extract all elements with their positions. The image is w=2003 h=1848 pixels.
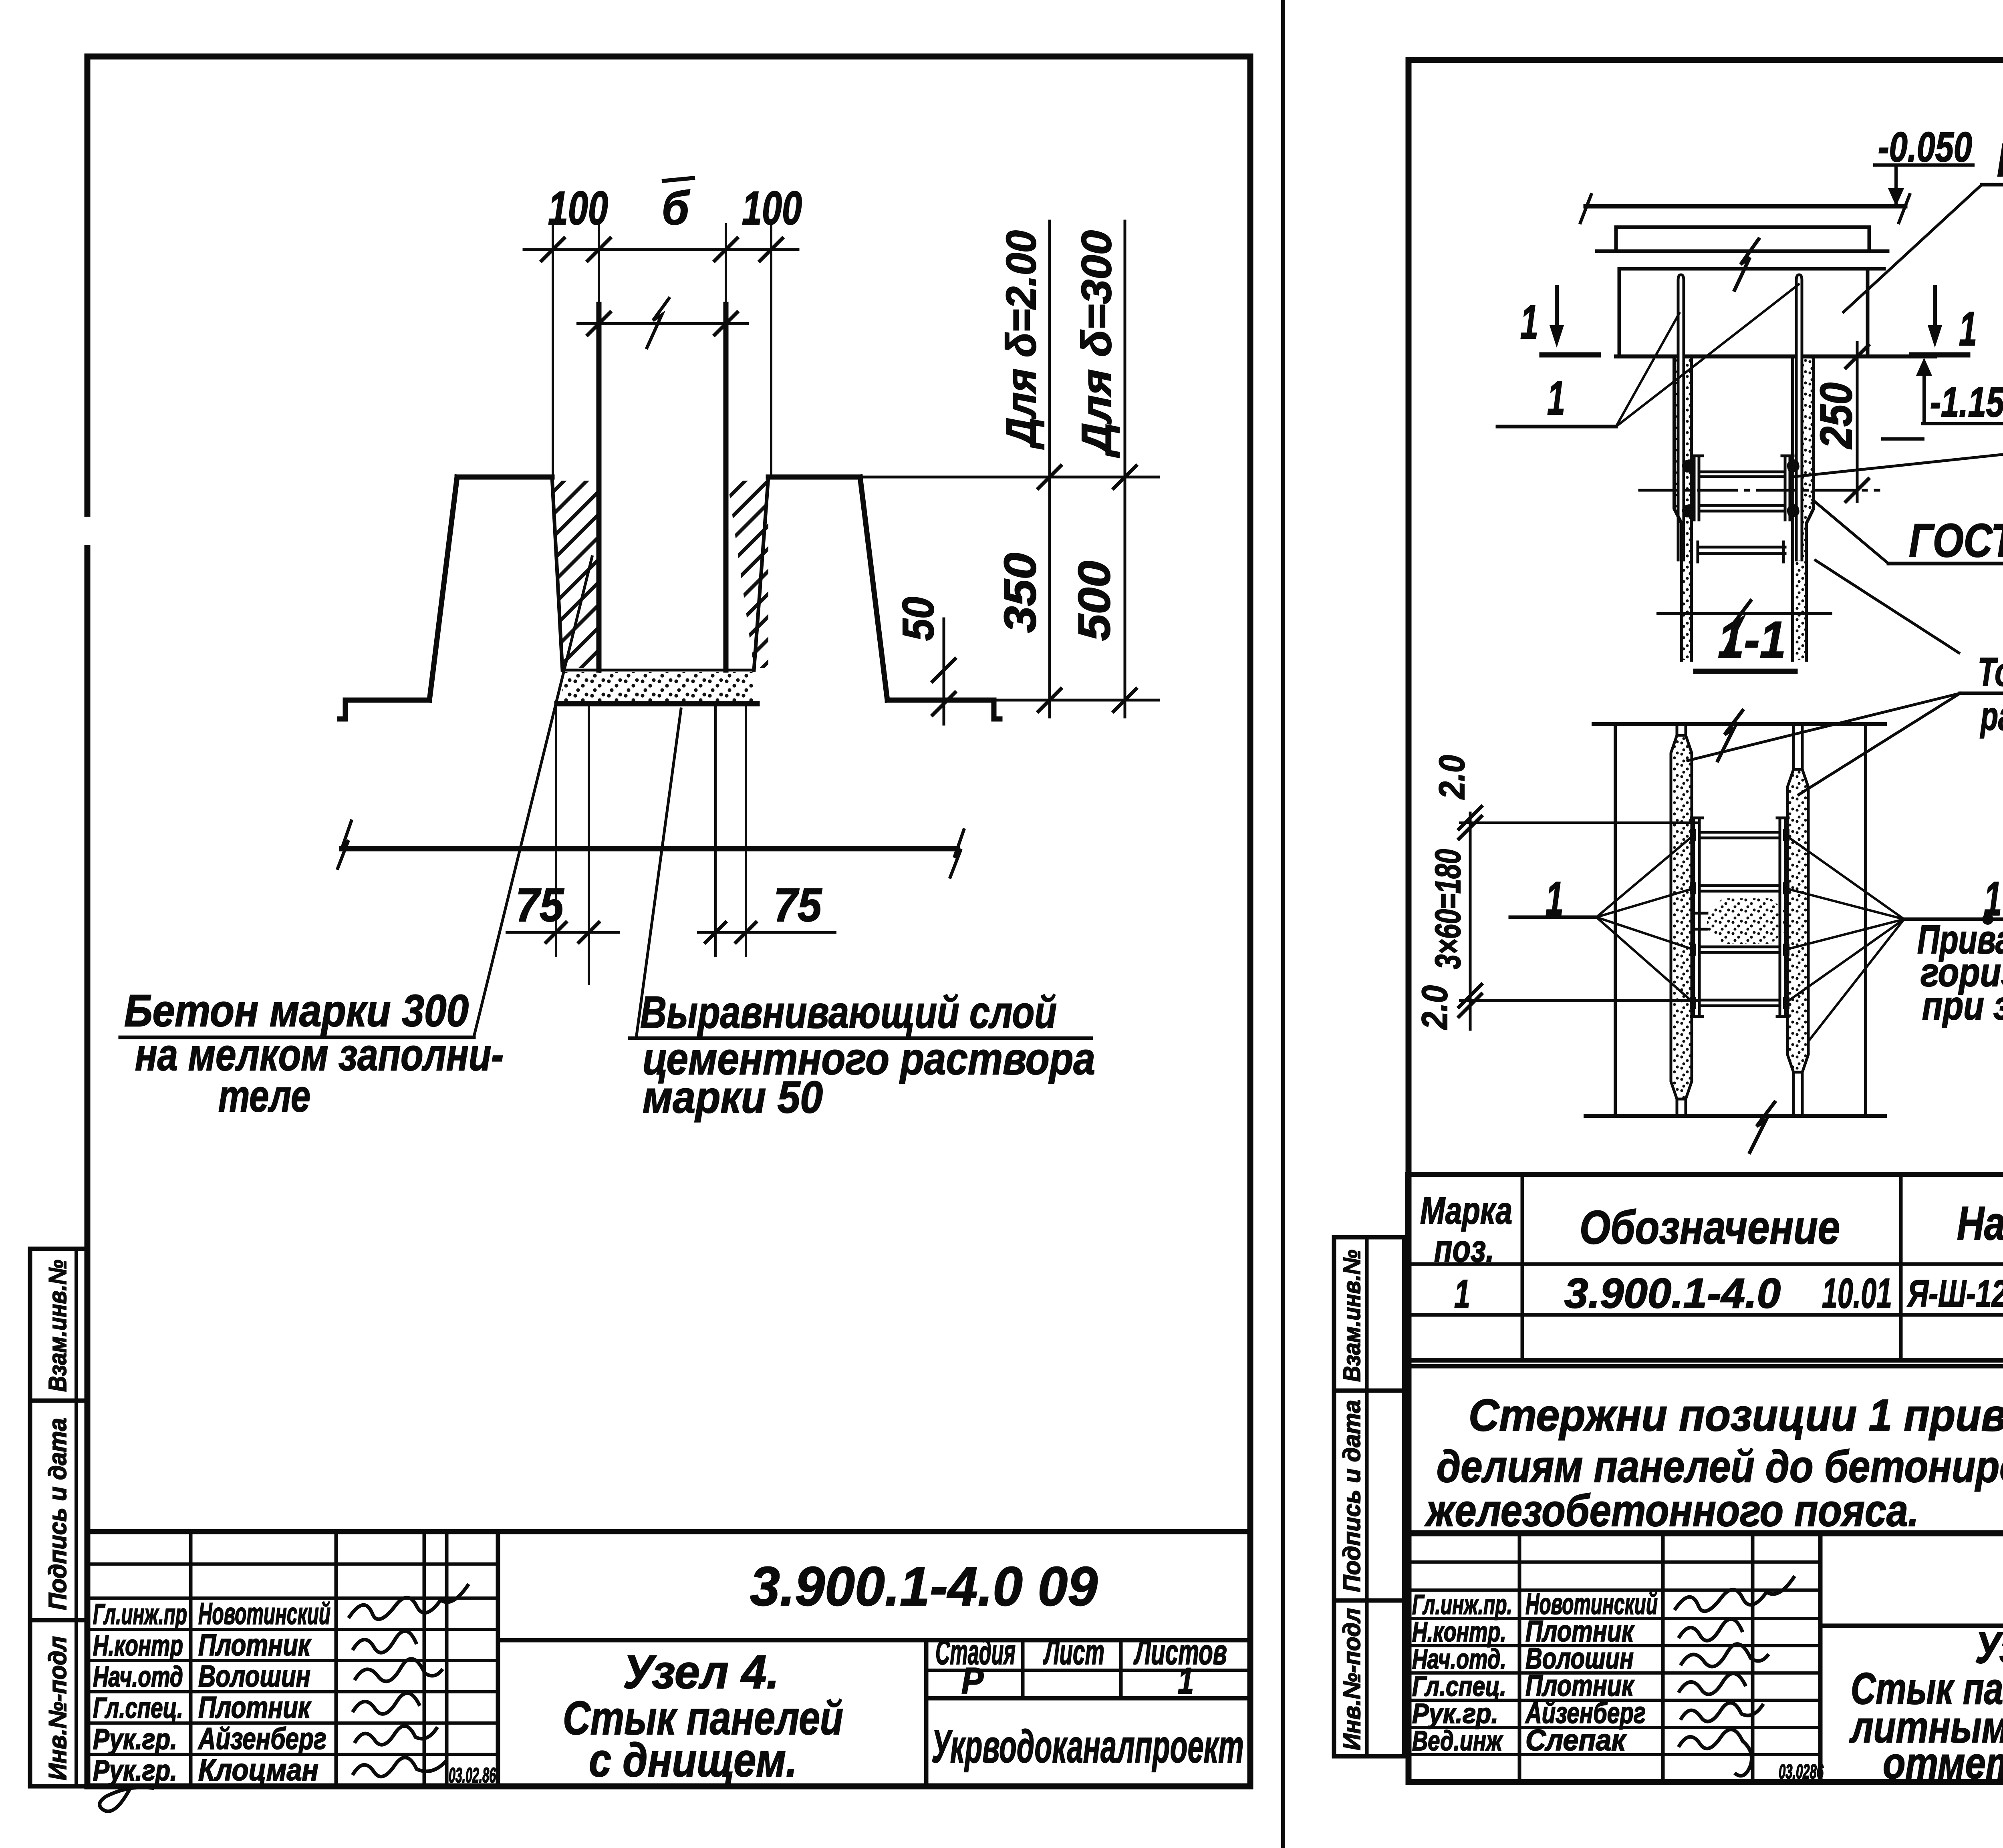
svg-text:1: 1	[1546, 872, 1564, 926]
right sheet frame	[1409, 60, 2003, 1782]
svg-text:3×60=180: 3×60=180	[1428, 849, 1468, 969]
title block top line	[87, 1529, 1250, 1534]
embed plate left (plan)	[1693, 818, 1695, 1017]
separator under doc number field	[498, 1638, 1250, 1643]
svg-text:Н.контр: Н.контр	[93, 1630, 183, 1662]
svg-text:Слепак: Слепак	[1525, 1723, 1627, 1757]
band edges right	[1806, 358, 1814, 660]
svg-text:Н.контр.: Н.контр.	[1412, 1616, 1506, 1647]
bottom break line of slab	[342, 846, 957, 852]
leader to mortar label	[636, 709, 681, 1038]
mortar levelling layer (stipple)	[562, 672, 753, 702]
top dimension line	[524, 248, 798, 251]
Z break bottom	[1750, 1102, 1775, 1152]
rod right (pos.1)	[1796, 275, 1802, 560]
socket top surface left	[457, 475, 552, 480]
svg-text:Бетон марки 300: Бетон марки 300	[124, 986, 469, 1036]
names table verticals	[189, 1532, 193, 1786]
tie bar 3	[1699, 946, 1780, 948]
svg-text:Нач.отд: Нач.отд	[93, 1661, 183, 1693]
break slash bottom-right	[950, 830, 964, 877]
tie bar 1	[1699, 831, 1780, 834]
svg-text:100: 100	[548, 182, 608, 235]
svg-text:500: 500	[1069, 561, 1119, 641]
svg-text:Нач.отд.: Нач.отд.	[1412, 1643, 1506, 1675]
rod left (pos.1)	[1678, 275, 1684, 560]
extension line far left	[552, 224, 554, 477]
divider	[1281, 0, 1285, 1848]
dim line 350	[1048, 221, 1051, 717]
horizontal bar upper	[1699, 471, 1785, 473]
svg-text:350: 350	[995, 553, 1045, 633]
side column	[1334, 1237, 1404, 1756]
dim extension top	[1460, 821, 1699, 824]
section arrow right	[1912, 287, 1968, 355]
svg-text:Плотник: Плотник	[198, 1691, 312, 1725]
signatures right	[1675, 1576, 1795, 1776]
torkret leaders	[1688, 560, 1960, 795]
svg-text:Гл.спец.: Гл.спец.	[1412, 1671, 1506, 1702]
svg-text:2.0: 2.0	[1415, 985, 1455, 1030]
lower tie bars	[1699, 546, 1785, 549]
svg-text:1: 1	[1178, 1661, 1194, 1701]
svg-text:Монолитный ж-б. пояс: Монолитный ж-б. пояс	[1997, 134, 2003, 187]
Z break across ledge lines	[1735, 239, 1759, 290]
svg-text:с днищем.: с днищем.	[589, 1734, 797, 1787]
leader to concrete label	[474, 557, 592, 1037]
dim 50 vertical line	[943, 619, 945, 724]
slab bottom line	[1616, 225, 1869, 229]
Z break top	[1718, 711, 1743, 761]
svg-text:Рук.гр.: Рук.гр.	[1412, 1698, 1498, 1729]
svg-text:Для δ=300: Для δ=300	[1073, 230, 1120, 458]
panel top break line with Z	[578, 322, 747, 325]
svg-text:Клоцман: Клоцман	[198, 1753, 318, 1787]
table verticals	[1521, 1174, 1524, 1360]
wall face left	[1614, 724, 1617, 1116]
dim line vertical left	[1469, 813, 1472, 1029]
names verticals	[1518, 1534, 1521, 1782]
svg-text:03.0286: 03.0286	[1779, 1760, 1824, 1783]
svg-text:б: б	[662, 182, 690, 235]
svg-text:10.01: 10.01	[1822, 1270, 1892, 1317]
bottom break line	[1586, 1114, 1885, 1118]
stadia grid verticals	[1021, 1640, 1025, 1698]
floor line left of socket	[340, 700, 429, 719]
stipple shotcrete band left (upper view)	[1674, 358, 1691, 660]
panel wall left	[596, 304, 602, 670]
svg-text:Рук.гр.: Рук.гр.	[93, 1755, 177, 1787]
axis dash-dot line	[1640, 489, 1879, 492]
underline concrete label	[120, 1036, 474, 1039]
svg-text:-1.150: -1.150	[1930, 379, 2003, 426]
floor line right of socket	[887, 700, 1000, 719]
svg-text:75: 75	[774, 879, 822, 932]
svg-text:2.0: 2.0	[1432, 755, 1472, 800]
svg-text:Для δ=2.00: Для δ=2.00	[998, 230, 1045, 450]
svg-text:Вед.инж: Вед.инж	[1412, 1725, 1503, 1756]
svg-text:Обозначение: Обозначение	[1580, 1201, 1840, 1254]
svg-text:250: 250	[1811, 382, 1861, 449]
top of mortar line	[562, 669, 754, 672]
tie bar 2	[1699, 884, 1780, 887]
svg-text:Марка: Марка	[1420, 1190, 1512, 1232]
dim text b overbar	[662, 178, 695, 181]
extension line panel left	[598, 224, 600, 324]
horizontal bar lower	[1699, 504, 1785, 507]
weld blobs right	[1787, 459, 1799, 473]
svg-text:раствором состава 1:2 в 2 слоя: раствором состава 1:2 в 2 слоя по 15мм	[1980, 694, 2003, 739]
note box	[1407, 1366, 2003, 1532]
extension of socket top to dim lines	[860, 476, 1159, 479]
svg-text:делиям панелей до бетониров: делиям панелей до бетонирования монолитн…	[1437, 1441, 2003, 1492]
joint neck lines	[1692, 912, 1707, 915]
svg-text:Подпись и дата: Подпись и дата	[44, 1418, 72, 1610]
pos1 marker left	[1510, 916, 1596, 919]
torkret underline	[1960, 692, 2003, 695]
svg-text:ГОСТ 5264-80 Δ5-50: ГОСТ 5264-80 Δ5-50	[1909, 514, 2003, 567]
panel stubs below left strip	[1676, 1099, 1679, 1116]
slab top break slashes	[1580, 195, 1591, 223]
right title block top	[1407, 1532, 2003, 1536]
svg-text:3.900.1-4.0 09: 3.900.1-4.0 09	[750, 1556, 1098, 1617]
svg-text:Гл.инж.пр: Гл.инж.пр	[93, 1598, 187, 1631]
svg-text:Волошин: Волошин	[198, 1659, 310, 1693]
names horizontals	[1407, 1560, 1820, 1564]
ledge line	[1597, 250, 1888, 253]
belt side right	[1866, 269, 1870, 356]
panel stubs above left strip	[1676, 724, 1679, 735]
belt side left	[1618, 269, 1621, 356]
strip outlines right	[1787, 769, 1808, 1072]
stadia grid horizontals	[926, 1669, 1250, 1672]
svg-text:марки 50: марки 50	[643, 1072, 823, 1122]
dim 50 ticks	[933, 659, 955, 715]
panel stubs below right strip	[1792, 1072, 1795, 1116]
side column frame	[30, 1249, 87, 1786]
left sheet frame	[87, 56, 1250, 1786]
dot on right marker	[1982, 914, 1993, 925]
pos1 marker right	[1904, 918, 2003, 921]
svg-text:1: 1	[1520, 295, 1538, 349]
svg-text:Укрводоканалпроект: Укрводоканалпроект	[931, 1721, 1244, 1772]
embed plate right (plan)	[1779, 818, 1781, 1017]
belt bottom line (-1.150 level)	[1616, 354, 1935, 358]
spec table outer	[1407, 1174, 2003, 1360]
tie bar 4	[1699, 999, 1780, 1002]
svg-text:Взам.инв.№: Взам.инв.№	[44, 1260, 72, 1392]
svg-text:Узел 4.: Узел 4.	[623, 1646, 779, 1699]
top break line	[1594, 722, 1885, 726]
svg-text:Я-Ш-12-ГОСТ5781-82ℓ=650: Я-Ш-12-ГОСТ5781-82ℓ=650	[1907, 1272, 2003, 1315]
table horizontals	[1407, 1262, 2003, 1266]
ticks inner dim	[588, 312, 737, 335]
svg-text:Рук.гр.: Рук.гр.	[93, 1723, 177, 1755]
section arrow left	[1542, 287, 1598, 355]
pos.1 leader diagonals	[1616, 313, 1679, 427]
svg-text:Торкретирование цементно-песча: Торкретирование цементно-песчаным	[1978, 650, 2003, 695]
leader to belt label	[1844, 185, 1982, 312]
extension line far right	[770, 224, 772, 477]
svg-text:1-1: 1-1	[1718, 610, 1786, 669]
underline mortar label	[630, 1037, 1091, 1040]
belt top line	[1621, 267, 1884, 271]
socket top surface right	[768, 475, 860, 480]
Z break bottom	[1726, 601, 1751, 651]
break slash bottom-left	[338, 821, 351, 868]
panel stubs above right strip	[1792, 724, 1795, 769]
stipple shotcrete band right (upper view)	[1793, 358, 1814, 660]
leader zakladnoe	[1795, 450, 2003, 477]
svg-text:теле: теле	[218, 1071, 310, 1121]
svg-text:Плотник: Плотник	[198, 1628, 312, 1662]
weld dots plan left	[1690, 829, 1789, 1009]
svg-text:Гл.инж.пр.: Гл.инж.пр.	[1412, 1589, 1512, 1620]
hatch left strip of socket	[552, 481, 596, 668]
svg-text:1: 1	[1454, 1272, 1470, 1317]
leader GOST	[1813, 500, 1888, 564]
dim extension bottom	[1460, 999, 1699, 1002]
svg-text:1: 1	[1959, 302, 1977, 356]
panel wall right	[723, 304, 729, 670]
embed plate right	[1784, 456, 1787, 520]
pos.1 leader line lower-left	[1497, 425, 1616, 429]
svg-text:100: 100	[742, 182, 802, 235]
svg-text:Инв.№-подл: Инв.№-подл	[44, 1636, 72, 1780]
socket inner sloped face left	[552, 477, 562, 670]
svg-text:при заделке стыков (Узлы 1;2).: при заделке стыков (Узлы 1;2).	[1922, 983, 2003, 1028]
socket inner sloped face right	[754, 477, 768, 670]
socket outer slope right	[860, 477, 887, 700]
extension of floor to dim lines	[994, 699, 1159, 702]
vertical between title and stadia grid	[924, 1640, 929, 1786]
band edges left	[1674, 358, 1682, 660]
svg-text:3.900.1-4.0: 3.900.1-4.0	[1564, 1270, 1781, 1317]
svg-text:Гл.спец.: Гл.спец.	[93, 1692, 183, 1724]
svg-text:1: 1	[1547, 371, 1565, 425]
svg-text:Выравнивающий слой: Выравнивающий слой	[640, 987, 1057, 1037]
joint mortar blob	[1707, 898, 1787, 944]
svg-text:Новотинский: Новотинский	[198, 1597, 330, 1631]
slot bottom line under mortar	[557, 701, 757, 707]
svg-text:Р: Р	[961, 1661, 984, 1701]
svg-text:Взам.инв.№: Взам.инв.№	[1338, 1250, 1365, 1382]
weld blobs left	[1682, 459, 1695, 473]
svg-text:Лист: Лист	[1043, 1632, 1104, 1672]
svg-text:отметке - 1.150: отметке - 1.150	[1883, 1739, 2003, 1788]
dim line 500	[1124, 221, 1126, 717]
1-1 view title underline	[1696, 669, 1795, 674]
bottom break line upper view	[1658, 612, 1831, 615]
strip outlines left	[1671, 735, 1692, 1099]
svg-text:железобетонного пояса.: железобетонного пояса.	[1424, 1486, 1919, 1536]
svg-text:-0.050: -0.050	[1878, 124, 1972, 171]
svg-text:Стержни позиции 1 приварить к: Стержни позиции 1 приварить к закладным …	[1469, 1390, 2003, 1440]
separator under doc number	[1820, 1624, 2003, 1628]
underline belt label	[1982, 183, 2003, 187]
svg-text:поз.: поз.	[1434, 1228, 1494, 1270]
level mark -0.050: vertical with arrow	[1875, 165, 1973, 206]
embed plate left	[1693, 456, 1696, 520]
slab top line	[1586, 204, 1905, 209]
signatures squiggles	[100, 1584, 469, 1811]
dim 250 ticks	[1846, 345, 1868, 501]
svg-text:03.02.86: 03.02.86	[449, 1764, 496, 1787]
socket outer slope left	[429, 477, 457, 700]
dim 75 line left	[506, 706, 836, 985]
level mark -1.150	[1883, 358, 2003, 439]
dim 250 line	[1856, 342, 1859, 501]
svg-text:Подпись и дата: Подпись и дата	[1338, 1400, 1365, 1592]
ticks on 350/500 dim lines	[1038, 466, 1136, 711]
svg-text:Наименование: Наименование	[1957, 1197, 2003, 1250]
names table horizontals	[87, 1562, 498, 1566]
underline GOST	[1888, 562, 2003, 566]
stipple strip right (plan)	[1787, 769, 1808, 1072]
wall face right	[1864, 724, 1867, 1116]
stipple strip left (plan)	[1671, 735, 1692, 1099]
dim ticks	[1459, 807, 1481, 1017]
svg-text:Айзенберг: Айзенберг	[197, 1722, 326, 1756]
hatch right strip of socket	[727, 481, 768, 668]
tick marks top dimension	[542, 238, 782, 261]
slab step verticals	[1614, 227, 1618, 251]
svg-text:50: 50	[894, 597, 943, 641]
extension line panel right	[725, 224, 727, 324]
svg-text:на мелком заполни-: на мелком заполни-	[135, 1030, 504, 1080]
svg-text:Инв.№-подл: Инв.№-подл	[1338, 1608, 1365, 1750]
